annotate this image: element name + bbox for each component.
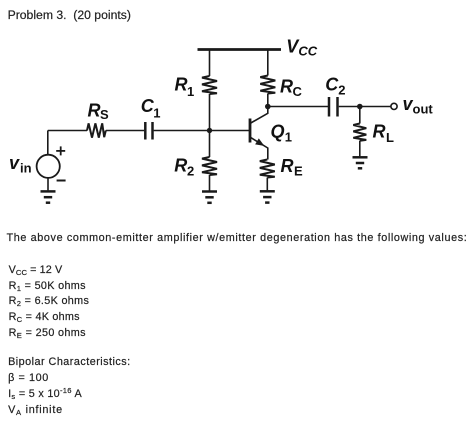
ground vin <box>41 191 56 202</box>
svg-text:R: R <box>373 122 386 142</box>
label RC <box>280 77 303 99</box>
svg-text:R: R <box>175 75 188 95</box>
resistor R2 <box>202 157 217 175</box>
capacitor C1 <box>145 122 152 140</box>
svg-text:C: C <box>293 84 303 99</box>
minus sign <box>57 180 66 182</box>
title text <box>8 9 131 21</box>
value VA <box>8 404 63 416</box>
wire R1 to base node <box>209 94 211 131</box>
label RL <box>373 122 395 145</box>
svg-text:S: S <box>100 107 109 122</box>
resistor RE <box>260 160 275 178</box>
label vout <box>403 94 434 117</box>
svg-text:R: R <box>281 156 294 176</box>
value R2 <box>9 295 90 307</box>
label R2 <box>174 156 194 179</box>
label RS <box>88 100 110 122</box>
wire R2 to ground <box>209 175 211 191</box>
svg-text:Q: Q <box>271 122 285 142</box>
resistor RC <box>260 76 275 94</box>
wire RL to ground <box>359 141 361 157</box>
svg-text:R: R <box>174 156 187 176</box>
svg-text:v: v <box>9 153 20 173</box>
heading bipolar <box>8 356 131 368</box>
value RE <box>9 327 86 339</box>
label RE <box>281 156 304 179</box>
plus sign <box>56 146 65 155</box>
wire input top <box>48 130 87 132</box>
label vin <box>9 153 32 175</box>
svg-text:CC: CC <box>298 44 317 59</box>
label Q1 <box>271 122 292 145</box>
ground RE <box>260 191 275 202</box>
wire RE to ground <box>266 178 268 191</box>
svg-text:R: R <box>280 77 293 97</box>
svg-text:1: 1 <box>153 106 160 121</box>
svg-text:C: C <box>325 74 339 94</box>
wire collector node to C2 <box>268 106 328 108</box>
wire C2 to vout <box>339 106 391 108</box>
resistor RS <box>87 123 106 137</box>
value Vcc <box>9 264 63 276</box>
svg-text:1: 1 <box>285 130 292 145</box>
capacitor C2 <box>329 97 338 117</box>
wire base line C1 to Q1 <box>154 130 250 132</box>
svg-text:L: L <box>386 130 394 145</box>
svg-text:2: 2 <box>187 164 194 179</box>
node collector junction <box>265 104 271 110</box>
svg-text:in: in <box>20 160 32 175</box>
wire node to RL <box>359 107 361 124</box>
label C2 <box>325 74 345 97</box>
resistor R1 <box>202 76 217 94</box>
node base junction <box>207 128 212 133</box>
wire rail to RC <box>267 50 269 76</box>
svg-text:1: 1 <box>187 84 194 99</box>
node RL junction <box>357 104 363 110</box>
ground R2 <box>202 192 217 203</box>
resistor RL <box>353 124 366 141</box>
wire rail to R1 <box>209 50 211 77</box>
label R1 <box>175 75 195 99</box>
value Is <box>8 388 82 400</box>
paragraph text <box>7 232 468 244</box>
label C1 <box>141 96 161 120</box>
Vcc supply rail <box>198 48 282 51</box>
terminal vout open circle <box>391 103 397 109</box>
transistor Q1 <box>250 104 268 149</box>
svg-text:2: 2 <box>338 82 345 97</box>
svg-text:out: out <box>413 102 434 117</box>
source vin <box>37 155 60 178</box>
wire emitter to RE <box>267 148 269 160</box>
wire source to input <box>47 131 49 155</box>
value beta <box>8 372 49 384</box>
wire RS to C1 <box>106 130 144 132</box>
wire source to ground <box>47 178 49 191</box>
label Vcc <box>286 37 318 59</box>
wire RC to collector node <box>267 94 269 107</box>
value R1 <box>9 280 86 292</box>
svg-text:E: E <box>294 164 303 179</box>
value RC <box>9 311 80 323</box>
wire node to R2 <box>209 131 211 158</box>
svg-text:R: R <box>88 100 101 120</box>
ground RL <box>353 157 368 168</box>
